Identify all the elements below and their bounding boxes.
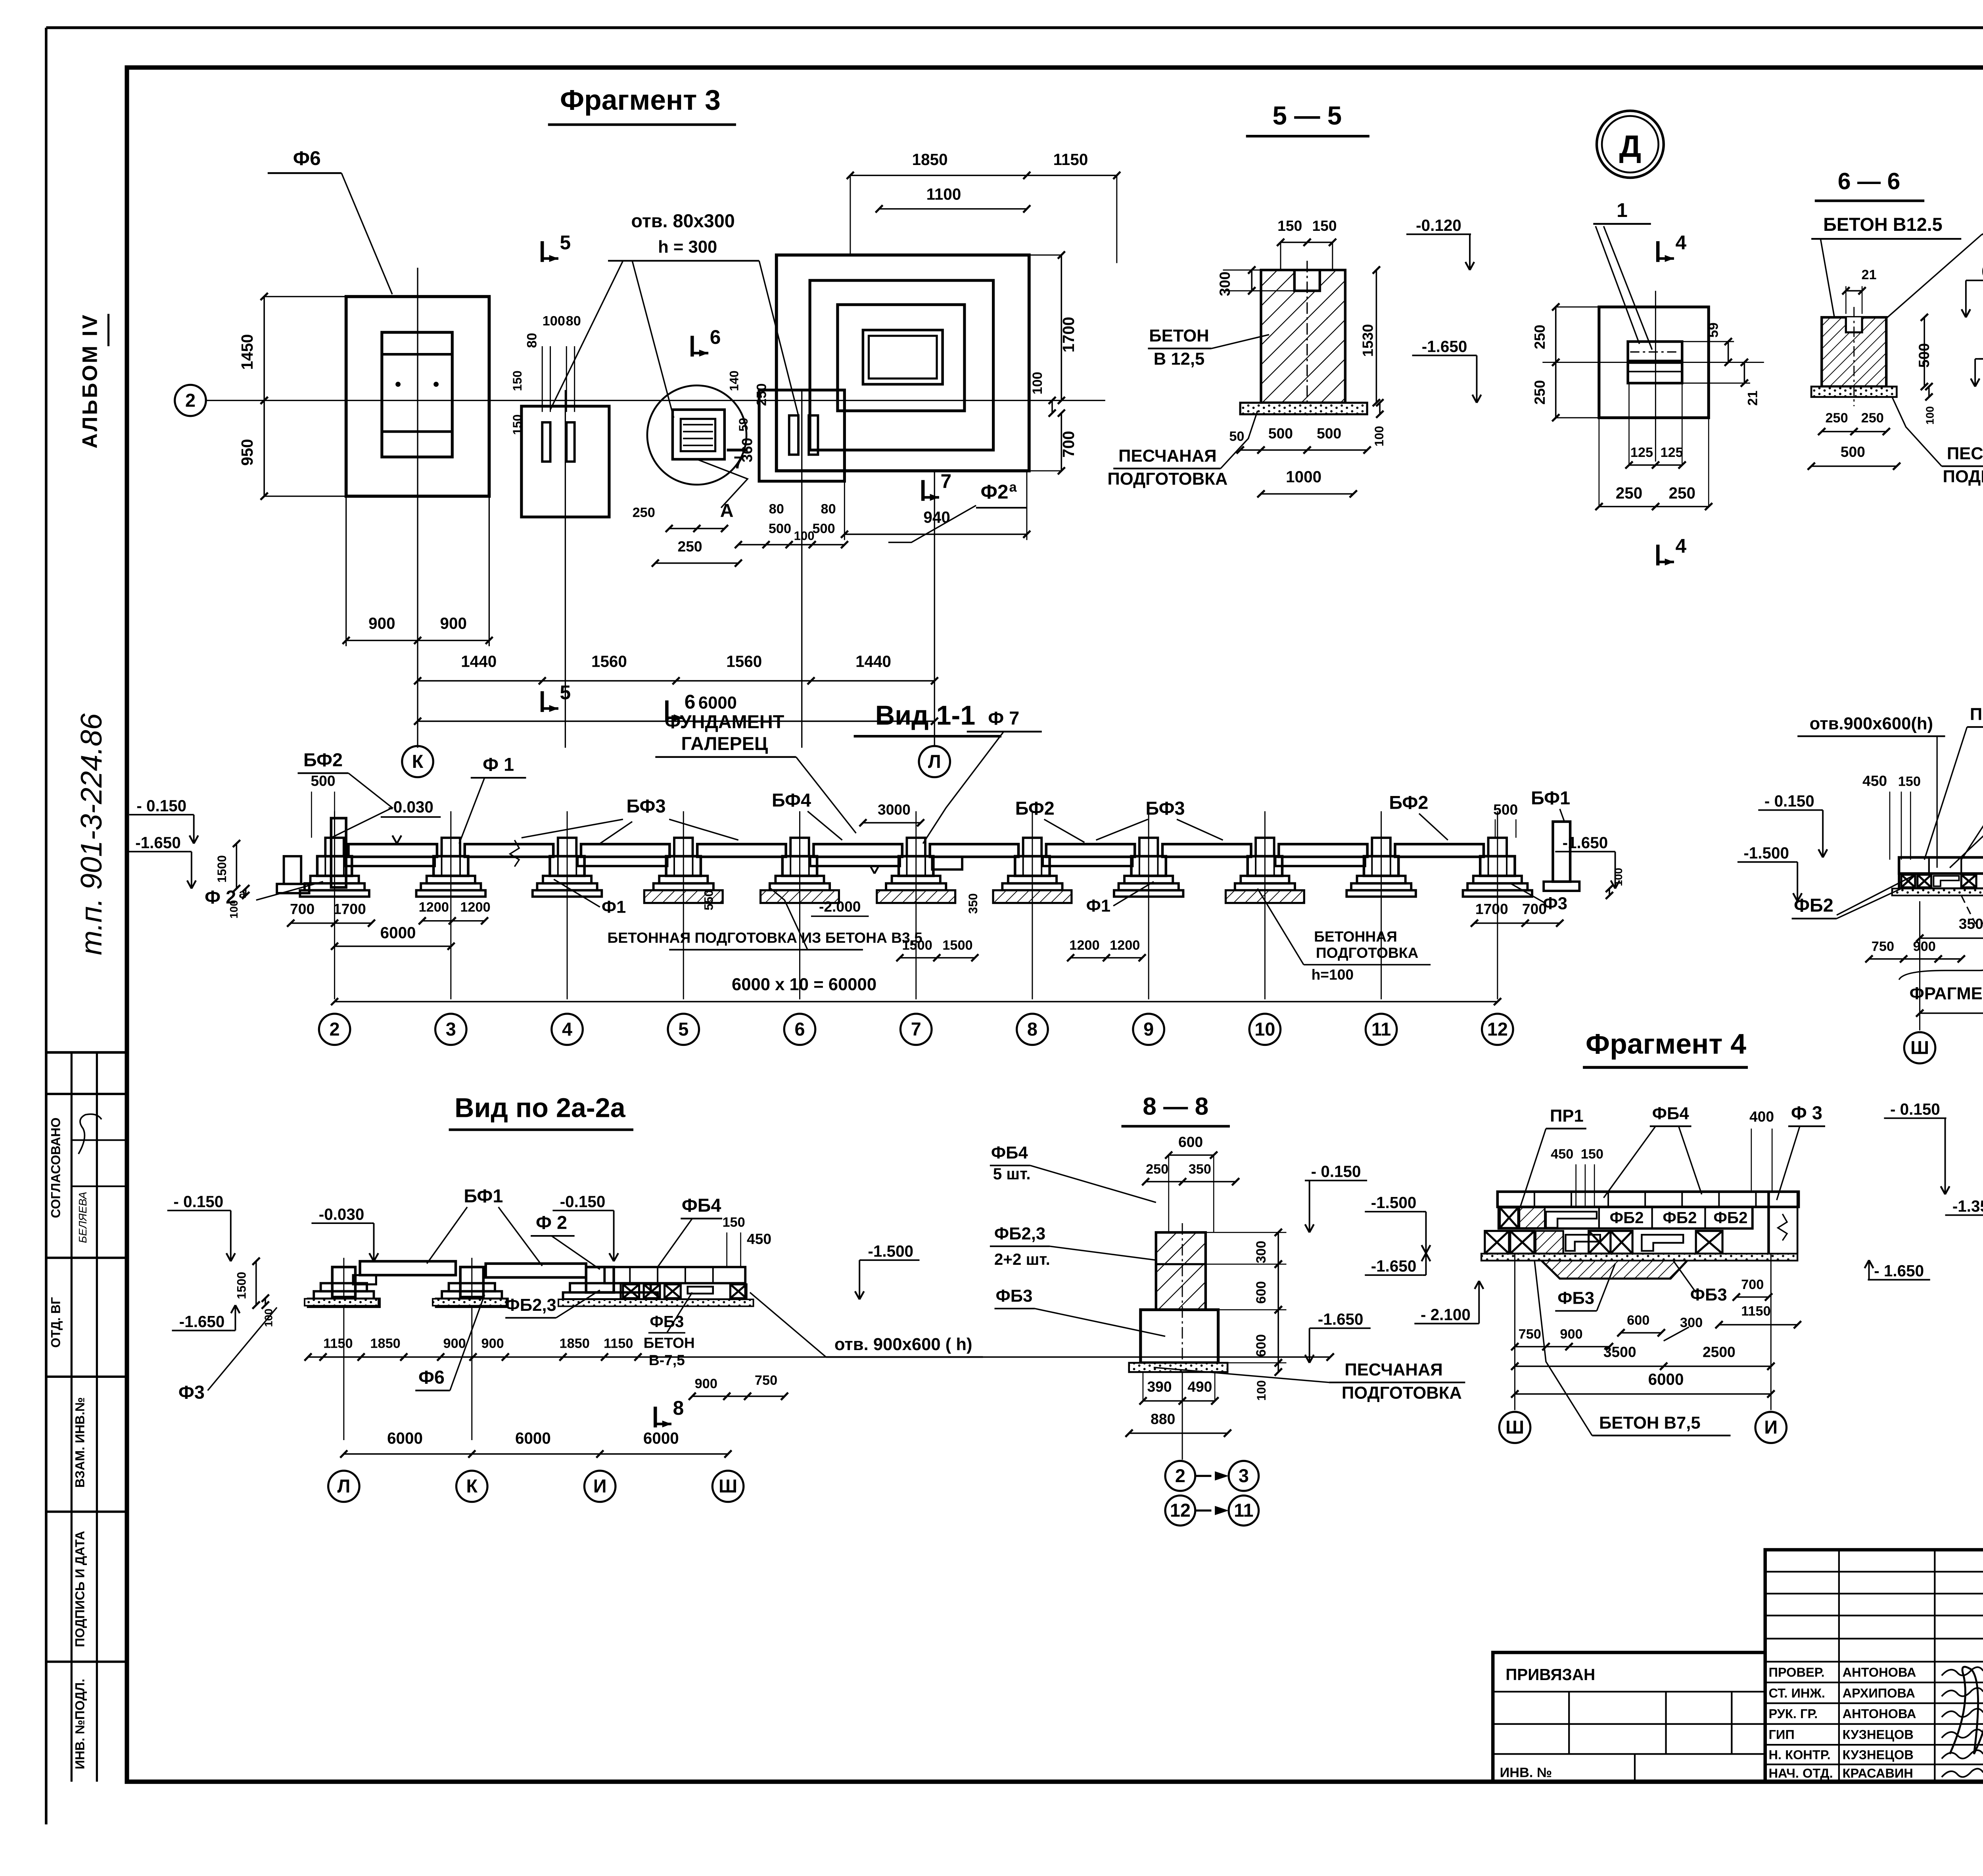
svg-text:Ф6: Ф6: [418, 1367, 445, 1387]
svg-text:- 0.150: - 0.150: [136, 796, 186, 815]
svg-text:ПР1: ПР1: [1970, 705, 1983, 724]
svg-text:- 0.150: - 0.150: [173, 1192, 223, 1210]
svg-text:900: 900: [1560, 1327, 1582, 1342]
svg-text:Ф 3: Ф 3: [1791, 1103, 1822, 1123]
svg-text:100: 100: [1030, 372, 1045, 394]
svg-text:1700: 1700: [1475, 900, 1508, 917]
svg-text:КРАСАВИН: КРАСАВИН: [1843, 1766, 1913, 1780]
svg-text:-1.500: -1.500: [868, 1242, 913, 1260]
svg-text:250: 250: [678, 538, 702, 555]
svg-text:900: 900: [481, 1336, 504, 1351]
svg-text:1150: 1150: [604, 1336, 633, 1351]
svg-text:1850: 1850: [559, 1336, 589, 1351]
svg-text:-2.000: -2.000: [819, 898, 861, 915]
svg-text:2: 2: [1175, 1466, 1185, 1486]
svg-text:Ш: Ш: [1910, 1038, 1929, 1058]
svg-text:250: 250: [1531, 325, 1548, 349]
svg-text:ПЕСЧАНАЯ: ПЕСЧАНАЯ: [1118, 447, 1216, 466]
svg-text:7: 7: [734, 453, 743, 472]
svg-text:АНТОНОВА: АНТОНОВА: [1843, 1665, 1916, 1679]
svg-text:6: 6: [794, 1019, 805, 1040]
svg-text:900: 900: [695, 1376, 717, 1391]
svg-text:1: 1: [1617, 199, 1628, 221]
svg-text:1500: 1500: [942, 938, 972, 953]
svg-text:БЕТОН: БЕТОН: [644, 1334, 695, 1351]
svg-text:100: 100: [543, 313, 565, 328]
svg-text:6: 6: [710, 326, 721, 348]
svg-text:А: А: [720, 500, 734, 521]
svg-text:ПОДГОТОВКА: ПОДГОТОВКА: [1316, 944, 1418, 961]
svg-text:80: 80: [821, 502, 836, 517]
svg-text:БЕТОН В7,5: БЕТОН В7,5: [1599, 1414, 1701, 1433]
svg-text:3500: 3500: [1603, 1344, 1636, 1360]
svg-text:500: 500: [1268, 425, 1293, 442]
svg-text:2+2 шт.: 2+2 шт.: [994, 1250, 1050, 1268]
svg-text:125: 125: [1630, 445, 1653, 460]
svg-text:К: К: [412, 751, 424, 772]
svg-text:БЕТОННАЯ: БЕТОННАЯ: [1314, 928, 1397, 945]
svg-text:500: 500: [311, 772, 335, 789]
svg-text:100: 100: [1612, 868, 1624, 886]
svg-text:Ф6: Ф6: [293, 147, 321, 169]
svg-text:9: 9: [1143, 1019, 1154, 1040]
svg-text:-1.650: -1.650: [1422, 337, 1467, 355]
svg-text:950: 950: [238, 439, 256, 466]
svg-text:ПРИВЯЗАН: ПРИВЯЗАН: [1505, 1665, 1595, 1684]
svg-text:3: 3: [1239, 1466, 1249, 1486]
svg-text:500: 500: [1317, 425, 1341, 442]
svg-text:Ф 1: Ф 1: [483, 754, 514, 775]
svg-text:500: 500: [1493, 801, 1518, 818]
svg-text:Л: Л: [337, 1476, 350, 1496]
svg-text:БЕЛЯЕВА: БЕЛЯЕВА: [77, 1192, 89, 1243]
svg-text:а: а: [1009, 480, 1017, 495]
svg-text:1440: 1440: [855, 652, 891, 671]
svg-text:ФРАГМЕНТ 4: ФРАГМЕНТ 4: [1910, 984, 1983, 1003]
svg-text:100: 100: [1372, 426, 1386, 447]
svg-text:500: 500: [769, 521, 791, 536]
svg-text:1700: 1700: [333, 900, 366, 917]
svg-text:-1.650: -1.650: [1318, 1310, 1364, 1328]
svg-text:Ф 2: Ф 2: [205, 887, 236, 907]
svg-text:И: И: [593, 1476, 607, 1496]
svg-text:5: 5: [560, 231, 571, 253]
svg-text:2: 2: [185, 390, 196, 410]
svg-text:Н. КОНТР.: Н. КОНТР.: [1768, 1748, 1830, 1762]
svg-text:- 0.150: - 0.150: [1311, 1162, 1361, 1181]
svg-text:80: 80: [769, 502, 784, 517]
svg-text:Ф 7: Ф 7: [988, 708, 1019, 729]
svg-text:отв. 80х300: отв. 80х300: [631, 211, 735, 231]
svg-text:600: 600: [1254, 1281, 1269, 1304]
svg-text:отв.900х600(h): отв.900х600(h): [1810, 714, 1933, 733]
svg-text:6000: 6000: [1648, 1370, 1684, 1388]
svg-text:Фрагмент 3: Фрагмент 3: [560, 84, 721, 116]
svg-text:-1.650: -1.650: [1563, 833, 1608, 852]
svg-text:150: 150: [1312, 217, 1337, 234]
svg-text:Ф3: Ф3: [1543, 894, 1567, 913]
svg-text:250: 250: [1531, 380, 1548, 405]
svg-text:ФБ3: ФБ3: [1690, 1285, 1727, 1304]
svg-text:500: 500: [1916, 343, 1932, 368]
svg-text:8: 8: [1027, 1019, 1038, 1040]
svg-text:ПЕСЧАНАЯ: ПЕСЧАНАЯ: [1344, 1360, 1442, 1379]
svg-text:СТ. ИНЖ.: СТ. ИНЖ.: [1768, 1686, 1825, 1700]
svg-text:ФБ2: ФБ2: [1794, 895, 1833, 915]
svg-text:900: 900: [1913, 939, 1936, 954]
svg-text:400: 400: [1749, 1108, 1774, 1125]
svg-text:ПР1: ПР1: [1550, 1107, 1584, 1126]
svg-text:11: 11: [1234, 1500, 1254, 1521]
svg-text:1200: 1200: [1069, 938, 1099, 953]
svg-text:БФ3: БФ3: [626, 796, 665, 816]
svg-text:АНТОНОВА: АНТОНОВА: [1843, 1707, 1916, 1721]
svg-text:150: 150: [1898, 774, 1921, 789]
svg-text:В 12,5: В 12,5: [1154, 349, 1205, 368]
svg-text:ФБ3: ФБ3: [996, 1287, 1033, 1306]
svg-text:ФБ2,3: ФБ2,3: [505, 1296, 556, 1315]
svg-text:К: К: [466, 1476, 478, 1496]
svg-text:В-7,5: В-7,5: [649, 1352, 685, 1368]
svg-text:ПЕСЧАНАЯ: ПЕСЧАНАЯ: [1947, 444, 1983, 463]
svg-text:1150: 1150: [1053, 150, 1088, 169]
svg-text:250: 250: [1825, 410, 1848, 426]
svg-text:750: 750: [1872, 939, 1894, 954]
svg-text:h = 300: h = 300: [658, 238, 717, 257]
svg-text:1440: 1440: [461, 652, 497, 671]
svg-text:80: 80: [525, 333, 540, 348]
svg-text:-0.150: -0.150: [560, 1192, 606, 1210]
svg-text:т.п. 901-3-224.86: т.п. 901-3-224.86: [75, 713, 108, 955]
svg-text:ПРОВЕР.: ПРОВЕР.: [1768, 1665, 1824, 1679]
svg-text:ИНВ. №ПОДЛ.: ИНВ. №ПОДЛ.: [73, 1679, 87, 1769]
svg-text:ПОДПИСЬ И ДАТА: ПОДПИСЬ И ДАТА: [73, 1531, 87, 1647]
svg-text:АЛЬБОМ IV: АЛЬБОМ IV: [78, 313, 102, 448]
svg-text:КУЗНЕЦОВ: КУЗНЕЦОВ: [1843, 1728, 1914, 1742]
svg-text:СОГЛАСОВАНО: СОГЛАСОВАНО: [48, 1118, 63, 1218]
svg-text:3: 3: [446, 1019, 456, 1040]
svg-text:-0.030: -0.030: [319, 1205, 364, 1223]
svg-text:КУЗНЕЦОВ: КУЗНЕЦОВ: [1843, 1748, 1914, 1762]
svg-text:- 0.150: - 0.150: [1890, 1100, 1940, 1118]
svg-text:1150: 1150: [323, 1336, 353, 1351]
svg-text:7: 7: [911, 1019, 921, 1040]
svg-text:8 — 8: 8 — 8: [1143, 1093, 1208, 1120]
svg-text:300: 300: [1680, 1315, 1703, 1330]
svg-text:ФБ2,3: ФБ2,3: [994, 1224, 1045, 1243]
svg-text:12: 12: [1170, 1500, 1191, 1521]
svg-text:750: 750: [755, 1373, 777, 1388]
svg-text:150: 150: [510, 414, 524, 435]
svg-text:ФБ4: ФБ4: [1652, 1104, 1690, 1123]
svg-text:900: 900: [443, 1336, 466, 1351]
svg-text:1500: 1500: [215, 855, 229, 882]
svg-text:7: 7: [941, 470, 952, 493]
svg-text:6000: 6000: [643, 1429, 679, 1447]
svg-text:300: 300: [1254, 1241, 1269, 1263]
svg-text:450: 450: [1862, 772, 1887, 789]
svg-text:1200: 1200: [419, 900, 449, 915]
svg-text:450: 450: [1551, 1147, 1573, 1162]
svg-text:Ш: Ш: [719, 1476, 737, 1496]
svg-text:880: 880: [1151, 1410, 1175, 1427]
svg-text:3500: 3500: [1959, 915, 1983, 932]
svg-text:59: 59: [1706, 322, 1721, 338]
svg-text:Ф 2: Ф 2: [536, 1212, 567, 1233]
svg-text:-0.030: -0.030: [388, 798, 433, 816]
svg-text:h=100: h=100: [1312, 966, 1354, 983]
svg-text:50: 50: [1229, 429, 1244, 444]
svg-text:100: 100: [1924, 406, 1936, 425]
svg-text:700: 700: [1741, 1277, 1764, 1292]
svg-text:БФ2: БФ2: [1389, 792, 1428, 813]
svg-text:1500: 1500: [902, 938, 932, 953]
svg-text:-1.650: -1.650: [1371, 1257, 1417, 1275]
svg-text:ОТД. ВГ: ОТД. ВГ: [48, 1297, 63, 1348]
svg-text:1560: 1560: [726, 652, 762, 671]
svg-text:1150: 1150: [1741, 1304, 1770, 1319]
svg-text:350: 350: [1189, 1162, 1211, 1177]
svg-text:700: 700: [1059, 431, 1078, 457]
svg-text:ФБ2: ФБ2: [1610, 1208, 1644, 1227]
svg-text:250: 250: [1616, 484, 1642, 502]
svg-text:750: 750: [1519, 1327, 1541, 1342]
svg-text:БЕТОННАЯ ПОДГОТОВКА ИЗ БЕТОНА: БЕТОННАЯ ПОДГОТОВКА ИЗ БЕТОНА В3,5: [607, 929, 922, 946]
svg-text:5: 5: [560, 681, 571, 704]
svg-text:ФБ3: ФБ3: [1557, 1289, 1594, 1308]
svg-text:6 — 6: 6 — 6: [1838, 168, 1901, 194]
svg-text:2500: 2500: [1703, 1344, 1736, 1360]
svg-text:БФ4: БФ4: [772, 790, 811, 811]
svg-text:490: 490: [1187, 1378, 1212, 1395]
svg-text:250: 250: [754, 383, 769, 406]
svg-text:5: 5: [678, 1019, 688, 1040]
svg-text:ФБ4: ФБ4: [991, 1143, 1028, 1162]
svg-text:100: 100: [1254, 1380, 1268, 1401]
svg-text:РУК. ГР.: РУК. ГР.: [1768, 1707, 1818, 1721]
svg-text:250: 250: [1669, 484, 1695, 502]
svg-text:1100: 1100: [926, 185, 961, 203]
svg-text:125: 125: [1660, 445, 1683, 460]
svg-text:940: 940: [923, 508, 950, 526]
svg-text:-1.500: -1.500: [1743, 844, 1789, 862]
svg-text:0.000: 0.000: [1981, 262, 1983, 280]
svg-text:АРХИПОВА: АРХИПОВА: [1843, 1686, 1915, 1700]
svg-text:550: 550: [702, 890, 716, 910]
svg-text:600: 600: [1627, 1313, 1649, 1328]
svg-text:- 2.100: - 2.100: [1421, 1305, 1471, 1324]
svg-text:450: 450: [747, 1230, 771, 1247]
svg-text:6000: 6000: [380, 923, 416, 942]
svg-text:ФБ2: ФБ2: [1663, 1208, 1697, 1227]
svg-text:БЕТОН: БЕТОН: [1149, 326, 1209, 345]
svg-text:1200: 1200: [1110, 938, 1140, 953]
svg-text:59: 59: [736, 418, 750, 432]
svg-text:1560: 1560: [591, 652, 627, 671]
svg-text:Вид по 2а-2а: Вид по 2а-2а: [455, 1093, 626, 1123]
svg-text:1530: 1530: [1360, 324, 1376, 357]
svg-text:21: 21: [1861, 267, 1876, 282]
svg-text:Ф2: Ф2: [980, 481, 1008, 503]
svg-text:БФ1: БФ1: [464, 1186, 503, 1207]
svg-text:4: 4: [562, 1019, 572, 1040]
svg-text:Ф3: Ф3: [178, 1382, 205, 1402]
svg-text:8: 8: [673, 1397, 684, 1419]
svg-text:1500: 1500: [235, 1272, 249, 1299]
svg-text:ФБ4: ФБ4: [682, 1195, 721, 1216]
svg-text:1200: 1200: [460, 900, 490, 915]
svg-text:700: 700: [290, 900, 315, 917]
svg-text:600: 600: [1254, 1334, 1269, 1357]
svg-text:Д: Д: [1619, 129, 1642, 164]
svg-text:ПОДГОТОВКА: ПОДГОТОВКА: [1943, 467, 1983, 486]
svg-text:390: 390: [1147, 1378, 1172, 1395]
svg-text:отв. 900х600 ( h): отв. 900х600 ( h): [834, 1335, 972, 1354]
svg-text:а: а: [239, 887, 246, 901]
svg-text:- 1.650: - 1.650: [1874, 1262, 1924, 1280]
svg-text:350: 350: [966, 893, 980, 914]
svg-text:Ф1: Ф1: [602, 898, 626, 917]
svg-text:ФБ2: ФБ2: [1713, 1208, 1747, 1227]
svg-text:10: 10: [1254, 1019, 1275, 1040]
svg-text:250: 250: [1861, 410, 1884, 426]
svg-text:21: 21: [1745, 391, 1760, 406]
svg-text:3000: 3000: [878, 801, 911, 818]
svg-text:900: 900: [368, 614, 395, 633]
svg-text:6000: 6000: [515, 1429, 551, 1447]
svg-text:6000 х 10 = 60000: 6000 х 10 = 60000: [732, 975, 876, 994]
svg-text:-0.120: -0.120: [1416, 216, 1461, 234]
svg-text:150: 150: [722, 1215, 745, 1230]
svg-text:80: 80: [566, 313, 581, 328]
svg-text:100: 100: [794, 529, 815, 543]
svg-text:6000: 6000: [387, 1429, 423, 1447]
svg-text:1850: 1850: [912, 150, 948, 169]
svg-text:150: 150: [510, 370, 524, 391]
svg-text:5 — 5: 5 — 5: [1273, 101, 1342, 130]
svg-text:1450: 1450: [238, 334, 256, 370]
svg-text:6000: 6000: [698, 693, 737, 712]
svg-text:ПОДГОТОВКА: ПОДГОТОВКА: [1342, 1383, 1462, 1402]
svg-text:ГАЛЕРЕЦ: ГАЛЕРЕЦ: [681, 733, 768, 754]
svg-text:11: 11: [1371, 1019, 1391, 1040]
svg-text:900: 900: [440, 614, 467, 633]
svg-text:-1.500: -1.500: [1371, 1193, 1417, 1212]
svg-text:Ф1: Ф1: [1086, 896, 1110, 915]
svg-text:БФ1: БФ1: [1531, 788, 1570, 808]
svg-text:6: 6: [685, 691, 696, 713]
svg-text:500: 500: [1841, 443, 1865, 460]
svg-text:БФ2: БФ2: [1015, 798, 1055, 819]
svg-text:1000: 1000: [1286, 468, 1321, 486]
svg-text:1700: 1700: [1059, 317, 1078, 353]
svg-text:150: 150: [1581, 1147, 1603, 1162]
svg-text:150: 150: [1277, 217, 1302, 234]
svg-text:4: 4: [1676, 535, 1687, 557]
svg-text:300: 300: [1216, 272, 1233, 296]
svg-text:ВЗАМ. ИНВ.№: ВЗАМ. ИНВ.№: [73, 1397, 87, 1488]
svg-text:ФУНДАМЕНТ: ФУНДАМЕНТ: [665, 712, 784, 732]
svg-text:ПОДГОТОВКА: ПОДГОТОВКА: [1107, 470, 1227, 489]
svg-text:ИНВ. №: ИНВ. №: [1500, 1765, 1552, 1780]
svg-text:БФ2: БФ2: [303, 750, 343, 770]
svg-text:5 шт.: 5 шт.: [993, 1164, 1031, 1183]
svg-text:ГИП: ГИП: [1768, 1728, 1794, 1742]
svg-text:БЕТОН В12.5: БЕТОН В12.5: [1823, 214, 1943, 235]
svg-text:2: 2: [330, 1019, 340, 1040]
svg-text:Ш: Ш: [1505, 1417, 1524, 1438]
svg-text:12: 12: [1487, 1019, 1508, 1040]
svg-text:-1.650: -1.650: [135, 833, 181, 852]
svg-text:- 0.150: - 0.150: [1764, 792, 1814, 810]
svg-text:Вид 1-1: Вид 1-1: [875, 700, 976, 731]
svg-text:Л: Л: [928, 751, 941, 772]
svg-text:1850: 1850: [370, 1336, 400, 1351]
svg-text:БФ3: БФ3: [1146, 798, 1185, 819]
svg-text:250: 250: [633, 505, 655, 520]
svg-text:НАЧ. ОТД.: НАЧ. ОТД.: [1768, 1766, 1833, 1780]
svg-text:4: 4: [1676, 231, 1687, 253]
svg-text:И: И: [1764, 1417, 1778, 1438]
svg-text:600: 600: [1178, 1134, 1203, 1150]
svg-text:Фрагмент 4: Фрагмент 4: [1586, 1028, 1746, 1060]
svg-text:140: 140: [727, 370, 741, 391]
svg-text:-1.650: -1.650: [179, 1312, 225, 1331]
svg-text:250: 250: [1146, 1162, 1168, 1177]
svg-text:-1.350: -1.350: [1952, 1197, 1983, 1215]
svg-text:500: 500: [812, 521, 835, 536]
